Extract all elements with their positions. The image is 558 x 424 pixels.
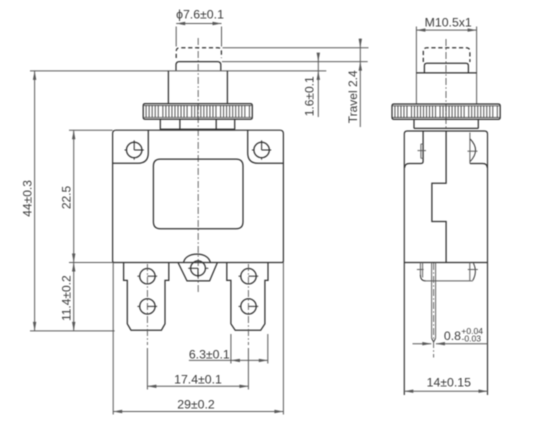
dimension 1.6±0.1 vertical line with arrows: [317, 53, 319, 117]
dimension line 29±0.2 with arrows: [113, 411, 283, 413]
dimension 0.8 leader arrows: [413, 343, 432, 345]
centerline (front view, vertical dash-dot): [197, 38, 199, 292]
hex washer below nut (front view): [159, 119, 161, 129]
dimension 22.5 / 11.4 shared vertical line with arrows: [73, 130, 75, 331]
left terminal centerline: [146, 264, 148, 345]
svg-text:17.4±0.1: 17.4±0.1: [174, 372, 222, 386]
svg-text:22.5: 22.5: [60, 185, 74, 209]
center mounting boss dome arc: [184, 254, 211, 262]
right terminal hole lower: [241, 299, 256, 314]
push button pressed position (solid, front view): [176, 62, 221, 71]
extension line body bottom (left): [69, 262, 113, 264]
threaded bushing (side view) with M10.5 extension lines: [415, 27, 417, 105]
dimension 44±0.3 vertical line with arrows: [34, 71, 36, 331]
knurled nut (side view): [392, 104, 500, 119]
top-left corner pocket: [113, 130, 149, 163]
rivet pin left (side view): [420, 144, 422, 158]
threaded bushing (front view): [167, 71, 169, 104]
centerline (side view, vertical dash-dot): [445, 39, 447, 130]
corner screw boss right (side view): [469, 133, 471, 164]
terminal bracket left (side view): [419, 263, 421, 277]
dimension Travel 2.4 vertical line with arrows: [359, 39, 361, 128]
svg-text:0.8: 0.8: [444, 329, 461, 343]
center boss screw circle: [191, 261, 206, 276]
dimension line M10.5x1 with arrows: [416, 29, 476, 31]
push button released position (dashed, front view): [176, 48, 221, 58]
extension line bottom (terminal bottom level): [30, 330, 115, 332]
washer below nut (side view): [413, 119, 415, 128]
svg-text:M10.5x1: M10.5x1: [425, 15, 472, 29]
front cover ledge right (side view): [470, 164, 488, 168]
dimension line 17.4±0.1 with arrows: [147, 385, 248, 387]
label recess rounded rectangle (front view): [153, 159, 243, 229]
push button released position (dashed, side view): [423, 48, 470, 62]
dimension line 6.3±0.1 with arrows: [189, 359, 268, 361]
extension line body top (left): [69, 129, 113, 131]
middle terminal blade (side view, edge on): [431, 263, 433, 339]
knurling lines on nut (front view): [146, 106, 249, 118]
svg-text:14±0.15: 14±0.15: [427, 376, 472, 390]
extension lines 29±0.2 (body sides extended): [112, 263, 114, 415]
top-right corner pocket: [248, 130, 284, 163]
mounting plane line (bushing top, long extension): [30, 70, 326, 72]
corner screw top-left: [127, 142, 142, 157]
svg-text:1.6±0.1: 1.6±0.1: [302, 76, 316, 116]
left terminal hole upper: [140, 269, 155, 284]
blade centerline (dash-dot): [433, 263, 435, 358]
case parting line with step (side view): [432, 131, 446, 263]
body bottom edge (side view): [404, 262, 487, 264]
right terminal outline (front view): [227, 263, 268, 331]
extension lines 6.3±0.1: [230, 334, 232, 364]
travel reference line B (button pressed top): [222, 61, 368, 63]
extension line left of φ7.6: [175, 27, 177, 47]
front cover ledge left (side view): [405, 131, 424, 168]
knurling lines on nut (side view): [395, 106, 497, 118]
dimension line φ7.6±0.1 with arrows: [176, 23, 221, 25]
svg-text:44±0.3: 44±0.3: [21, 180, 35, 217]
bushing top edge (side view): [416, 72, 476, 74]
center mounting boss trapezoid: [178, 263, 217, 281]
right terminal hole upper: [241, 269, 256, 284]
push button pressed position (solid, side view): [424, 63, 468, 73]
dimension line 14±0.15 with arrows: [404, 390, 487, 392]
right terminal centerline: [247, 264, 249, 345]
terminal bracket right with screw arc (side view): [469, 263, 471, 281]
travel reference line A (button released top): [223, 47, 369, 49]
terminal bracket bottom edge (side view): [425, 280, 473, 282]
svg-text:29±0.2: 29±0.2: [177, 398, 215, 412]
svg-text:-0.03: -0.03: [462, 334, 482, 344]
svg-text:Travel 2.4: Travel 2.4: [346, 70, 360, 123]
corner screw top-right: [254, 142, 269, 157]
svg-text:6.3±0.1: 6.3±0.1: [189, 347, 230, 361]
breaker body outline (front view): [113, 130, 284, 262]
breaker body outline (side view): [404, 131, 487, 395]
svg-text:ϕ7.6±0.1: ϕ7.6±0.1: [176, 8, 224, 22]
extension lines 17.4±0.1: [146, 348, 148, 390]
left terminal outline (front view): [124, 263, 169, 331]
svg-text:11.4±0.2: 11.4±0.2: [60, 275, 74, 321]
knurled nut (front view): [143, 104, 252, 120]
left terminal hole lower: [140, 299, 155, 314]
extension line right of φ7.6: [221, 27, 223, 47]
